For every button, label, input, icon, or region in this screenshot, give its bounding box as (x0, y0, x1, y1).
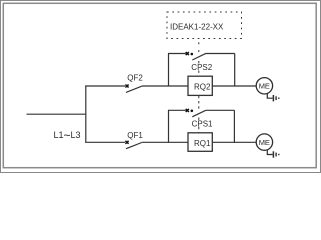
wire: CPS1 top path left (168, 109, 186, 111)
wire: CPS1 top path right (206, 109, 235, 111)
breaker QF2 (125, 74, 143, 93)
motor M2 (256, 78, 272, 94)
wire: CPS2 top path left (168, 53, 186, 55)
wire: through CPS2 main (169, 85, 236, 87)
svg-text:CPS2: CPS2 (191, 63, 212, 72)
wire: QF1 to CPS1 (142, 141, 169, 143)
wire: CPS1 to motor M1 (234, 141, 256, 143)
switch CPS1 (contact + blade) (186, 109, 206, 117)
dashed control link (CPS2 to CPS1) (198, 96, 200, 133)
motor M1 (256, 134, 272, 150)
wire: branch vertical (85, 86, 87, 142)
svg-text:QF1: QF1 (127, 131, 143, 140)
ground (motor M2) (267, 94, 279, 102)
svg-text:RQ1: RQ1 (194, 139, 211, 148)
wire: CPS2 top path right (206, 53, 235, 55)
svg-text:ME: ME (259, 82, 270, 91)
RQ2 box (188, 76, 212, 95)
svg-text:ME: ME (259, 138, 270, 147)
svg-text:QF2: QF2 (127, 74, 143, 83)
CPS1 bypass right riser (233, 110, 235, 143)
RQ1 box (188, 133, 212, 152)
switch CPS2 (contact + blade) (186, 52, 206, 60)
CPS2 bypass right riser (234, 54, 236, 87)
wire: incoming feed L1~L3 (27, 113, 86, 115)
wire: upper branch to QF2 (85, 85, 125, 87)
border frame (decorative) (1, 1, 321, 173)
breaker QF1 (125, 131, 143, 149)
svg-text:IDEAK1-22-XX: IDEAK1-22-XX (170, 23, 224, 32)
wire: through CPS1 main (169, 141, 235, 143)
svg-text:CPS1: CPS1 (192, 119, 213, 128)
wire: CPS2 to motor M2 (235, 85, 256, 87)
ground (motor M1) (267, 150, 279, 158)
wire: QF2 to CPS2 (142, 85, 169, 87)
wire: lower branch to QF1 (85, 141, 125, 143)
CPS1 bypass left riser (168, 110, 170, 143)
CPS2 bypass left riser (168, 54, 170, 87)
svg-text:RQ2: RQ2 (194, 83, 211, 92)
module box IDEAK1-22-XX (dashed) (167, 12, 242, 39)
dashed control link (module to CPS2) (198, 42, 200, 76)
